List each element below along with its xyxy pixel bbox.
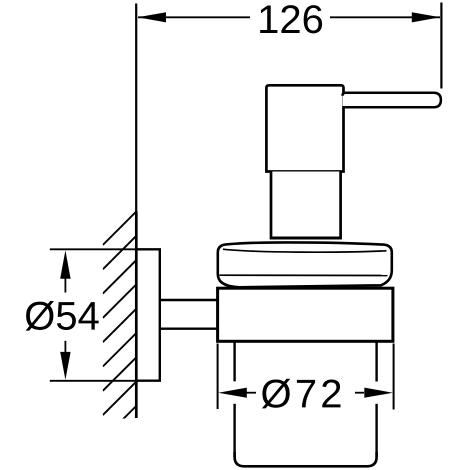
arrowhead right 126 bbox=[412, 12, 440, 22]
dimension tail right Ø72 bbox=[355, 392, 364, 394]
dimension tail left Ø72 bbox=[247, 392, 257, 394]
extension line left of Ø72 bbox=[217, 344, 219, 410]
wall hatching bbox=[103, 212, 137, 440]
dimension line Ø54 bbox=[64, 278, 66, 293]
label Ø54 bbox=[26, 301, 99, 331]
label 126 bbox=[260, 5, 322, 33]
dimension line 126 bbox=[138, 16, 250, 18]
arrowhead up Ø54 bbox=[60, 250, 70, 279]
arrowhead down Ø54 bbox=[60, 352, 70, 380]
wall plate bbox=[136, 249, 160, 380]
wall mount arm top edge bbox=[160, 299, 218, 301]
glass tumbler bottom bbox=[235, 452, 377, 466]
lid (dispenser cap) outline bbox=[218, 242, 392, 287]
holder ring bbox=[218, 288, 393, 341]
extension line bottom of Ø54 bbox=[50, 380, 137, 382]
extension line right of 126 dimension bbox=[440, 3, 442, 89]
arrowhead left Ø72 bbox=[218, 388, 247, 398]
lid contour line upper bbox=[223, 249, 387, 252]
extension line top of Ø54 bbox=[50, 248, 137, 250]
arrowhead right Ø72 bbox=[364, 388, 393, 398]
wall mount arm bottom edge bbox=[160, 328, 218, 330]
glass tumbler left wall bbox=[233, 342, 235, 381]
arrowhead left 126 bbox=[138, 12, 166, 22]
wall surface line bbox=[135, 212, 138, 419]
extension line left of 126 dimension bbox=[135, 4, 137, 213]
extension line right of Ø72 bbox=[393, 344, 395, 410]
pump neck bbox=[271, 172, 341, 239]
label Ø72 bbox=[262, 379, 341, 409]
lid contour line lower bbox=[220, 274, 388, 276]
pump spout bbox=[343, 93, 441, 108]
glass tumbler right wall bbox=[375, 342, 377, 382]
pump head bbox=[266, 85, 343, 171]
neck bottom thick edge bbox=[270, 237, 342, 240]
